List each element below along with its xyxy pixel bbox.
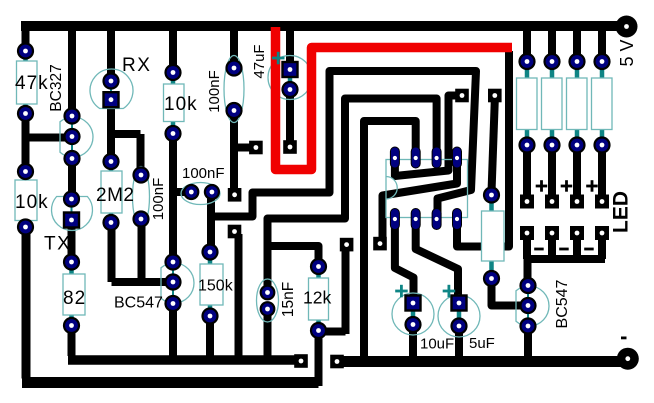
wire: 15nF bottom to upper rail bbox=[264, 309, 272, 360]
wire: drop to BC327 top bbox=[68, 26, 76, 116]
node: 10k left bottom pad bbox=[18, 220, 33, 235]
node: 47uF minus square pad bbox=[283, 140, 297, 154]
node: square pad upper rail end bbox=[294, 354, 308, 368]
wire: 150k bottom to upper rail bbox=[206, 316, 214, 360]
wire: stub to 100nF B left pad bbox=[173, 188, 188, 196]
node: 5uF minus pad bbox=[452, 319, 467, 334]
node: 10uF plus square pad bbox=[406, 296, 421, 311]
op-amp U1 outline bbox=[386, 160, 468, 218]
node: 100nF C top pad bbox=[227, 61, 242, 76]
node: BC547 right base pad bbox=[521, 298, 536, 313]
wire: third maze ring ground to IC pin bbox=[364, 121, 416, 358]
node: LED resistor top pads bbox=[520, 54, 610, 69]
wire: second maze ring 15nF to IC pin bbox=[268, 99, 437, 293]
transistor BC547 right outline bbox=[516, 280, 549, 332]
transistor TX outline bbox=[51, 193, 92, 231]
svg-text:5 V: 5 V bbox=[617, 39, 637, 66]
label LED plus signs bbox=[536, 180, 598, 192]
wire: branch to square pad B bbox=[234, 144, 252, 152]
resistor 150k body bbox=[200, 252, 223, 316]
resistor 2M2 body bbox=[101, 162, 122, 223]
node: 12k bottom pad bbox=[311, 323, 326, 338]
op-amp U1 bottom pins bbox=[390, 209, 461, 230]
wire: 47k bottom to 10k top bbox=[22, 114, 30, 172]
svg-text:100nF: 100nF bbox=[182, 165, 225, 182]
node: 5V terminal pad bbox=[616, 16, 638, 38]
wire: IC bottom pin2 to 5uF plus bbox=[416, 219, 458, 300]
node: 82 bottom pad bbox=[64, 318, 79, 333]
node: BC547 left emitter pad bbox=[166, 296, 181, 311]
node: RX round pad bbox=[104, 74, 119, 89]
wire: bottom ground rail bbox=[22, 377, 319, 388]
svg-text:47uF: 47uF bbox=[251, 44, 268, 78]
wire: bottom minus rail bbox=[339, 356, 624, 367]
wire: IC pin4 top to square pad below bbox=[383, 158, 458, 241]
node: square pad B bbox=[249, 141, 263, 155]
node: 47k bottom pad bbox=[18, 106, 33, 121]
wire: RX square down with branch to 100nF A and 2M2 bbox=[107, 100, 141, 175]
svg-text:10k: 10k bbox=[15, 192, 49, 213]
wire: drop to 47k top bbox=[22, 26, 30, 51]
capacitor 47uF outline bbox=[268, 56, 312, 100]
capacitor 15nF outline bbox=[257, 279, 279, 322]
node: square pad at maze end bbox=[228, 188, 242, 202]
svg-text:RX: RX bbox=[122, 55, 151, 76]
capacitor 100nF B outline bbox=[181, 183, 220, 205]
wire: 47uF minus to square pad bbox=[286, 90, 294, 145]
node: 47uF plus square pad bbox=[283, 62, 298, 77]
node: 100nF B left pad bbox=[184, 185, 198, 199]
transistor BC327 outline bbox=[60, 110, 93, 165]
node: 10k left top pad bbox=[18, 164, 33, 179]
wire: drop to 10k mid top bbox=[169, 26, 177, 73]
wire: square pad to resistor top bbox=[492, 100, 495, 192]
label 47uF plus bbox=[272, 52, 285, 65]
resistor 10k mid body bbox=[164, 73, 185, 134]
wire: square pad down to upper rail bbox=[235, 234, 243, 360]
svg-text:82: 82 bbox=[63, 288, 86, 309]
node: 2M2 bottom pad bbox=[104, 215, 119, 230]
svg-text:TX: TX bbox=[44, 234, 71, 255]
label 5uF plus bbox=[443, 285, 456, 298]
wire: 82 bottom down bbox=[68, 326, 76, 357]
wire: 10uF minus to bottom rail bbox=[409, 325, 417, 362]
wire: red jumper trace bbox=[276, 27, 513, 170]
node: BC327 base pad bbox=[65, 129, 80, 144]
svg-text:LED: LED bbox=[610, 191, 633, 233]
node: BC547 right emitter pad bbox=[521, 319, 536, 334]
node: square pad IC pin1 net bbox=[455, 89, 469, 103]
node: BC327 emitter pad bbox=[65, 151, 80, 166]
wire: 5uF minus to bottom rail bbox=[455, 326, 463, 362]
resistor unlabeled body bbox=[482, 195, 505, 279]
node: BC547 left base pad bbox=[166, 275, 181, 290]
svg-text:5uF: 5uF bbox=[469, 335, 495, 352]
resistor LED3 body bbox=[567, 62, 588, 146]
svg-text:2M2: 2M2 bbox=[96, 185, 134, 206]
node: 10k mid top pad bbox=[166, 65, 181, 80]
node: 10uF minus pad bbox=[406, 317, 421, 332]
wire: IC bottom pin4 east and up to red end bbox=[457, 51, 509, 247]
svg-text:15nF: 15nF bbox=[280, 282, 297, 317]
node: square pad below IC pin4 trace bbox=[373, 237, 387, 251]
resistor LED4 body bbox=[592, 62, 613, 146]
resistor 10k left body bbox=[15, 172, 37, 228]
wire: base bar to BC547 left base bbox=[112, 278, 168, 286]
node: 5uF plus square pad bbox=[452, 296, 467, 311]
wire: 100nF A bottom down to base bar bbox=[138, 219, 146, 282]
resistor LED1 body bbox=[517, 62, 538, 146]
node: 100nF A bottom pad bbox=[134, 212, 149, 227]
wire: drops to LED resistors bbox=[527, 26, 602, 62]
transistor BC547 left outline bbox=[161, 256, 194, 310]
node: 47uF minus pad bbox=[283, 82, 298, 97]
wire: 100nF C bottom to square pad bbox=[230, 111, 238, 193]
svg-text:100nF: 100nF bbox=[150, 178, 167, 221]
node: 15nF bottom pad bbox=[261, 302, 275, 316]
wire: 5V top rail bbox=[21, 21, 620, 31]
node: square pad bottom rail start bbox=[330, 355, 344, 369]
capacitor 100nF A outline bbox=[133, 167, 150, 227]
svg-text:12k: 12k bbox=[303, 288, 331, 308]
node: 2M2 top pad bbox=[104, 154, 119, 169]
node: RX square pad bbox=[104, 92, 119, 107]
wire: branch 15nF node to 12k top bbox=[268, 246, 319, 267]
node: BC547 right collector pad bbox=[521, 278, 536, 293]
node: TX round pad bbox=[64, 192, 79, 207]
wire: BC327 emitter to TX pad bbox=[68, 159, 76, 200]
node: LED resistor bottom pads bbox=[520, 138, 610, 153]
label 10uF plus bbox=[395, 285, 408, 298]
wire: LED resistor bottoms to plus squares bbox=[527, 145, 602, 198]
wire: LED minus bus bbox=[527, 233, 605, 286]
node: LED plus square pads bbox=[520, 195, 609, 209]
svg-text:47k: 47k bbox=[15, 73, 49, 94]
wire: 10k left bottom to ground rail bbox=[22, 227, 31, 379]
node: 150k top pad bbox=[203, 245, 218, 260]
wire: IC pin1 top to square pad bbox=[395, 96, 458, 177]
node: 47k top pad bbox=[18, 44, 33, 59]
wire: 10k mid bottom to BC547 left collector bbox=[169, 134, 177, 263]
svg-text:10uF: 10uF bbox=[420, 336, 454, 353]
node: 150k bottom pad bbox=[203, 309, 218, 324]
node: 82 top pad bbox=[64, 255, 79, 270]
wire: TX square pad to 82 top bbox=[68, 220, 76, 262]
label LED minus signs bbox=[534, 248, 594, 251]
node: square pad second below bbox=[228, 225, 242, 239]
wire: 2M2 bottom down to base bar bbox=[108, 223, 116, 283]
wire: drop to 100nF C top bbox=[230, 28, 238, 68]
svg-text:150k: 150k bbox=[198, 278, 234, 295]
resistor 82 body bbox=[63, 262, 85, 326]
wire: upper bottom rail to square pad bbox=[68, 355, 299, 365]
node: unlabeled resistor bottom pad bbox=[484, 271, 499, 286]
node: square pad resistor net bbox=[488, 89, 502, 103]
node: 15nF top pad bbox=[261, 286, 275, 300]
svg-text:BC547: BC547 bbox=[114, 295, 163, 312]
capacitor 10uF outline bbox=[392, 293, 434, 335]
node: BC327 collector pad bbox=[65, 109, 80, 124]
node: 100nF C bottom pad bbox=[227, 103, 242, 118]
wire: resistor bottom to BC547 right base bbox=[492, 279, 523, 306]
svg-text:100nF: 100nF bbox=[206, 70, 223, 113]
wire: drop to RX pad bbox=[107, 26, 115, 81]
node: TX square pad bbox=[64, 213, 79, 228]
resistor LED2 body bbox=[542, 62, 563, 146]
wire: branch to BC327 base bbox=[26, 134, 67, 142]
resistor 47k body bbox=[17, 51, 38, 114]
node: minus terminal pad bbox=[617, 348, 639, 370]
node: 12k top pad bbox=[311, 259, 326, 274]
node: square pad above 12k link bbox=[340, 238, 354, 252]
node: 10k mid bottom pad bbox=[166, 126, 181, 141]
wire: drop to 47uF plus pad bbox=[286, 28, 294, 70]
label minus terminal bbox=[621, 337, 627, 340]
capacitor 5uF outline bbox=[438, 295, 480, 337]
resistor 12k body bbox=[309, 267, 329, 331]
transistor RX outline bbox=[90, 69, 133, 108]
wire: BC547 right emitter to bottom rail bbox=[524, 326, 532, 362]
svg-text:BC327: BC327 bbox=[48, 64, 65, 111]
svg-text:10k: 10k bbox=[164, 94, 198, 115]
wire: ground rail up to 12k bottom bbox=[315, 331, 323, 387]
wire: BC547 left emitter to upper rail bbox=[169, 304, 177, 361]
node: BC547 left collector pad bbox=[166, 255, 181, 270]
wire: 12k bottom east up to square pad bbox=[319, 250, 346, 334]
op-amp U1 top pins bbox=[390, 147, 461, 168]
node: LED minus square pads bbox=[520, 226, 609, 240]
node: 100nF B right pad bbox=[205, 185, 219, 199]
wire: 100nF B right pad down to 150k top bbox=[207, 192, 215, 252]
wire: IC bottom pin1 to 10uF plus bbox=[395, 219, 414, 300]
svg-text:BC547: BC547 bbox=[554, 279, 571, 328]
wire: outer maze ring from 150k node to IC pin bbox=[207, 71, 476, 217]
node: 100nF A top pad bbox=[134, 168, 149, 183]
capacitor 100nF C outline bbox=[224, 56, 244, 123]
node: unlabeled resistor top pad bbox=[484, 188, 499, 203]
